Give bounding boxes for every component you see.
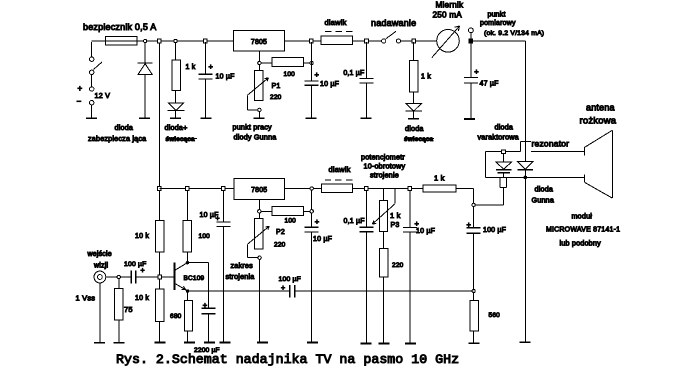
- svg-text:+: +: [467, 220, 472, 229]
- svg-text:0,1 µF: 0,1 µF: [343, 70, 364, 77]
- voltage regulator 7805 (U2): [234, 178, 284, 199]
- resistor 220 (P3 series): [382, 232, 384, 249]
- svg-text:1 k: 1 k: [186, 64, 196, 71]
- ground (LED2): [408, 118, 419, 120]
- svg-text:wejście: wejście: [87, 251, 112, 258]
- svg-text:1 k: 1 k: [434, 174, 445, 183]
- node junction: [310, 39, 314, 43]
- node junction: [469, 39, 473, 43]
- svg-text:10 µF: 10 µF: [216, 74, 235, 81]
- svg-text:+: +: [78, 84, 83, 93]
- node junction: [222, 187, 226, 191]
- resistor 10 k (upper divider): [158, 190, 160, 220]
- node junction (emitter): [186, 289, 189, 292]
- svg-text:pomiarowy: pomiarowy: [480, 20, 516, 27]
- ground (P2): [257, 342, 268, 344]
- svg-text:10 µF: 10 µF: [320, 81, 339, 88]
- svg-text:rezonator: rezonator: [532, 139, 570, 149]
- svg-text:bezpiecznik 0,5 A: bezpiecznik 0,5 A: [83, 22, 156, 32]
- svg-text:punkt: punkt: [488, 12, 506, 19]
- svg-text:Rys. 2.Schemat nadajnika TV na: Rys. 2.Schemat nadajnika TV na pasmo 10 …: [116, 352, 459, 367]
- ground (75): [114, 342, 125, 344]
- LED dioda swiecaca 2: [413, 92, 415, 104]
- ground (C3): [360, 117, 371, 119]
- resistor 100 (U2 adj): [261, 210, 272, 212]
- node junction: [186, 187, 190, 191]
- svg-text:+: +: [281, 285, 285, 292]
- svg-text:dioda: dioda: [535, 185, 554, 194]
- node junction: [158, 187, 162, 191]
- resistor 1 k (LED branch 2): [413, 42, 415, 61]
- svg-text:Miernik: Miernik: [436, 1, 464, 10]
- capacitor 0,1 uF (lower): [365, 190, 367, 227]
- node junction (collector): [186, 261, 189, 264]
- svg-text:antena: antena: [586, 103, 615, 113]
- wire gunn to ground: [524, 177, 526, 342]
- wire varactor/gunn feed line to antenna: [486, 176, 585, 178]
- capacitor 0,1 uF: [365, 42, 367, 79]
- antenna horn antena rozkowa: [583, 148, 585, 156]
- wire emitter line right: [295, 290, 474, 292]
- svg-text:MICROWAVE 87141-1: MICROWAVE 87141-1: [546, 227, 620, 234]
- voltage regulator 7805 (U1): [234, 30, 285, 50]
- wire base: [161, 276, 173, 278]
- svg-text:47 µF: 47 µF: [480, 81, 499, 88]
- ground (C10u): [307, 342, 318, 344]
- node junction (base): [158, 275, 162, 279]
- svg-text:220: 220: [392, 262, 404, 269]
- svg-text:220: 220: [270, 94, 282, 101]
- wire 7805 output: [285, 40, 321, 42]
- potentiometer P1 220: [258, 65, 260, 71]
- ground (680): [184, 342, 195, 344]
- wire lower rail: [159, 188, 234, 190]
- ground (C01): [361, 343, 372, 345]
- svg-text:+: +: [474, 67, 479, 76]
- node junction: [365, 39, 369, 43]
- transistor BC109 (Q1): [174, 263, 176, 291]
- svg-text:1 k: 1 k: [421, 74, 431, 81]
- svg-text:świecąca: świecąca: [166, 136, 196, 143]
- ground (P1): [253, 117, 264, 119]
- svg-text:1 Vss: 1 Vss: [76, 294, 96, 303]
- resistor 10 k (lower divider): [158, 279, 160, 289]
- svg-text:dlawik: dlawik: [329, 165, 351, 174]
- capacitor 100 uF (series coupling): [289, 285, 291, 298]
- svg-text:diody Gunna: diody Gunna: [234, 133, 277, 142]
- wire input: [106, 276, 117, 278]
- node junction (gunn cathode): [524, 176, 528, 180]
- resistor 100 (collector): [186, 190, 188, 220]
- svg-text:1 k: 1 k: [390, 211, 401, 220]
- svg-text:10 µF: 10 µF: [416, 228, 435, 235]
- wire rail to gunn: [473, 40, 525, 42]
- svg-text:12 V: 12 V: [95, 91, 111, 100]
- resistor 680 (emitter): [187, 293, 189, 301]
- svg-text:+: +: [209, 62, 214, 71]
- diode zabezpieczajaca (protection): [144, 42, 146, 63]
- svg-text:varaktorowa: varaktorowa: [478, 133, 519, 142]
- capacitor 10 uF (U2 out): [311, 213, 313, 227]
- svg-text:P2: P2: [276, 229, 285, 236]
- wire: [352, 40, 381, 42]
- node junction: [310, 187, 313, 190]
- ground (10k): [154, 342, 165, 344]
- svg-text:P1: P1: [272, 83, 281, 90]
- wire junction up to rail: [311, 190, 313, 209]
- svg-text:7805: 7805: [251, 187, 267, 194]
- svg-text:+: +: [216, 216, 220, 223]
- svg-text:zakres: zakres: [231, 261, 254, 270]
- ground (battery): [86, 117, 97, 119]
- potentiometer P3 1 k (10-turn): [382, 189, 384, 200]
- node junction: [174, 39, 177, 42]
- svg-text:10-obrotowy: 10-obrotowy: [364, 162, 406, 171]
- node junction: [258, 61, 261, 64]
- svg-text:7805: 7805: [251, 39, 267, 46]
- wire U2 adj down: [258, 199, 260, 209]
- ground (C10b): [405, 343, 416, 345]
- svg-text:+: +: [415, 219, 420, 228]
- wire long vertical from top rail: [158, 43, 160, 189]
- svg-text:dioda: dioda: [495, 123, 514, 132]
- node junction: [258, 210, 261, 213]
- capacitor 100 uF (input coupling): [121, 276, 132, 278]
- wire to bias node: [475, 204, 503, 206]
- node junction: [204, 39, 208, 43]
- svg-text:100: 100: [199, 233, 211, 240]
- node junction (varactor bias node): [472, 203, 475, 206]
- svg-text:100 µF: 100 µF: [483, 227, 506, 234]
- svg-text:wizji: wizji: [93, 263, 108, 270]
- svg-text:P3: P3: [391, 222, 400, 229]
- svg-text:0,1 µF: 0,1 µF: [344, 218, 365, 225]
- capacitor 100 uF (modulation): [473, 207, 475, 228]
- wire emitter line: [188, 290, 290, 292]
- svg-text:lub podobny: lub podobny: [560, 239, 602, 248]
- wire collector to 2200uF: [187, 262, 208, 264]
- resistor 560: [473, 293, 475, 301]
- ground (C47): [464, 118, 475, 120]
- node junction: [117, 275, 120, 278]
- ground (C2): [306, 117, 317, 119]
- svg-text:75: 75: [124, 305, 133, 314]
- wire: [401, 40, 438, 42]
- wire: [352, 188, 423, 190]
- node junction: [310, 210, 313, 213]
- wire 7805 adj down: [258, 51, 260, 61]
- wire rezonator to antenna: [531, 150, 584, 152]
- node junction: [143, 39, 146, 42]
- ground (560): [469, 342, 480, 344]
- resistor 75: [118, 279, 120, 289]
- node junction: [412, 39, 416, 43]
- capacitor 2200 uF: [202, 307, 216, 309]
- test point punkt pomiarowy: [470, 33, 472, 39]
- svg-text:+: +: [315, 217, 320, 226]
- capacitor 10 uF (7805 out): [311, 42, 313, 81]
- svg-text:+: +: [141, 268, 145, 275]
- svg-text:250 mA: 250 mA: [433, 11, 463, 20]
- ground (LED1): [170, 117, 181, 119]
- svg-text:potencjometr: potencjometr: [361, 153, 405, 162]
- node junction: [365, 187, 369, 191]
- varactor diode: [503, 154, 505, 163]
- svg-text:moduł: moduł: [572, 212, 593, 221]
- svg-text:rożkowa: rożkowa: [580, 116, 617, 127]
- svg-text:strojenie: strojenie: [370, 171, 399, 180]
- ground (protection diode): [139, 117, 150, 119]
- svg-text:dlawik: dlawik: [325, 18, 347, 27]
- svg-text:560: 560: [489, 312, 501, 319]
- svg-text:100: 100: [285, 218, 297, 225]
- ground (connector): [94, 342, 105, 344]
- svg-text:strojenia: strojenia: [226, 272, 255, 281]
- svg-text:100 µF: 100 µF: [279, 276, 302, 283]
- ground (C1): [201, 117, 212, 119]
- svg-text:BC109: BC109: [184, 275, 205, 282]
- varactor mount post: [499, 177, 501, 187]
- capacitor 10 uF (lower right): [409, 190, 411, 227]
- fuse 0,5 A: [92, 40, 106, 42]
- gunn diode: [518, 162, 533, 170]
- svg-text:dioda+: dioda+: [165, 123, 188, 132]
- wire varactor bypass left: [486, 151, 502, 153]
- node junction: [472, 289, 475, 292]
- capacitor 10 uF (U2 in): [222, 190, 224, 222]
- svg-text:−: −: [77, 97, 82, 106]
- node junction: [158, 39, 162, 43]
- svg-text:+: +: [315, 70, 320, 79]
- potentiometer P2 220: [258, 213, 260, 219]
- svg-text:10 k: 10 k: [135, 233, 149, 240]
- resistor 1 k (LED branch 1): [175, 42, 177, 60]
- node junction: [408, 187, 412, 191]
- svg-text:nadawanie: nadawanie: [371, 18, 416, 28]
- svg-text:świecąca: świecąca: [404, 136, 434, 143]
- battery 12 V with switch: [91, 42, 93, 57]
- ground (2200uF): [204, 342, 215, 344]
- LED dioda swiecaca 1: [175, 91, 177, 103]
- wire top rail: [137, 40, 234, 42]
- ground (gunn): [519, 341, 530, 343]
- svg-text:zabezpiecza jąca: zabezpiecza jąca: [88, 134, 146, 143]
- svg-text:dioda: dioda: [115, 123, 134, 132]
- svg-text:10 k: 10 k: [135, 295, 149, 302]
- capacitor 10 uF (input filter): [204, 42, 206, 74]
- svg-text:100: 100: [284, 71, 296, 78]
- svg-text:+: +: [203, 301, 208, 310]
- svg-text:punkt pracy: punkt pracy: [233, 123, 273, 132]
- node junction: [310, 61, 313, 64]
- svg-text:Gunna: Gunna: [532, 196, 555, 205]
- svg-text:(ok. 9.2 V/134 mA): (ok. 9.2 V/134 mA): [484, 30, 544, 37]
- wire varactor to rezonator: [505, 151, 520, 153]
- capacitor 47 uF: [470, 42, 472, 78]
- svg-text:10 µF: 10 µF: [313, 236, 332, 243]
- node junction varactor bias: [502, 150, 506, 154]
- svg-text:680: 680: [170, 313, 182, 320]
- wire U2 output: [284, 188, 321, 190]
- resistor 100 (7805 adj): [261, 62, 272, 64]
- svg-text:220: 220: [274, 242, 286, 249]
- ground (220): [379, 343, 390, 345]
- ground (C10in): [219, 342, 230, 344]
- svg-text:dioda: dioda: [405, 124, 424, 133]
